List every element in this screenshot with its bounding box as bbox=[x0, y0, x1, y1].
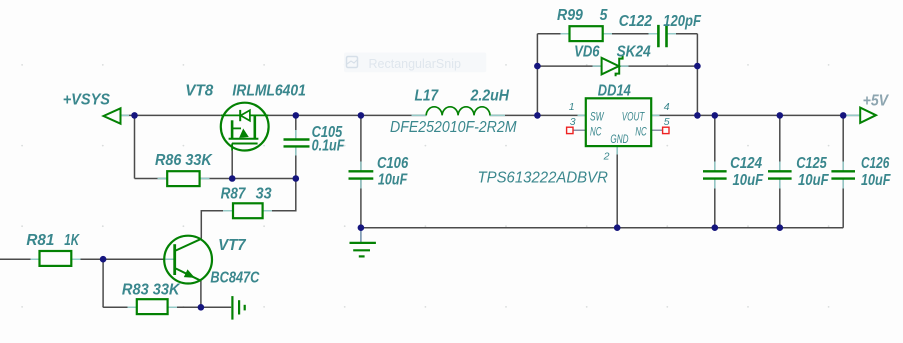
svg-text:RectangularSnip: RectangularSnip bbox=[369, 57, 461, 71]
wire GND stub below C106 bbox=[360, 228, 362, 242]
inductor L17 bbox=[426, 107, 490, 116]
svg-text:R87: R87 bbox=[221, 185, 247, 202]
wire top rail VT8 to L17 bbox=[269, 114, 427, 116]
node C124 top junction bbox=[712, 112, 719, 119]
ground symbol below C106 bbox=[350, 243, 376, 257]
wire R87 to VT7 collector bbox=[201, 211, 232, 239]
node ground rail junction C125 bbox=[777, 224, 784, 231]
svg-text:GND: GND bbox=[610, 132, 628, 146]
node ground rail junction C106 bbox=[358, 224, 365, 231]
node C105 top junction bbox=[293, 112, 300, 119]
resistor R83 bbox=[137, 299, 168, 314]
pin stubs NC bbox=[573, 129, 663, 131]
resistor R87 bbox=[233, 203, 263, 218]
svg-text:R99: R99 bbox=[557, 7, 583, 24]
capacitor C125 bbox=[768, 171, 792, 178]
tooltip overlay RectangularSnip bbox=[344, 53, 486, 73]
wire right loop vertical bbox=[696, 34, 698, 116]
earth ground at VT7 emitter bbox=[232, 296, 244, 320]
wire R83 branch vertical bbox=[102, 259, 104, 307]
svg-text:5: 5 bbox=[664, 116, 670, 128]
wire DD14 GND pin drop bbox=[616, 146, 618, 228]
node VOUT rail junction right loop bbox=[694, 112, 701, 119]
capacitor C122 bbox=[658, 25, 666, 47]
svg-text:SW: SW bbox=[590, 109, 605, 123]
node C126 top junction bbox=[840, 112, 847, 119]
svg-text:1K: 1K bbox=[64, 232, 80, 249]
capacitor C106 bbox=[349, 171, 374, 178]
capacitor C124 bbox=[703, 171, 727, 178]
node ground rail junction C124 bbox=[712, 224, 719, 231]
resistor R99 bbox=[570, 26, 603, 41]
svg-text:3: 3 bbox=[570, 116, 576, 128]
transistor VT7 NPN BC847C bbox=[164, 236, 212, 284]
component lead tints bbox=[31, 34, 861, 308]
wire top rail from +VSYS arrow to VT8 bbox=[121, 114, 221, 116]
capacitor C105 bbox=[284, 140, 310, 147]
svg-text:VOUT: VOUT bbox=[622, 109, 646, 123]
wire vertical +VSYS column bbox=[134, 115, 136, 178]
wire R81 row bbox=[0, 258, 173, 260]
node VT8 gate junction bbox=[229, 175, 236, 182]
svg-text:10uF: 10uF bbox=[861, 172, 891, 189]
transistor VT8 P-MOSFET IRLML6401 bbox=[221, 103, 269, 151]
node C106 top junction bbox=[358, 112, 365, 119]
wire C106 column bbox=[360, 115, 362, 227]
svg-text:10uF: 10uF bbox=[733, 172, 765, 189]
svg-text:L17: L17 bbox=[415, 88, 440, 105]
wire VT8 gate drop bbox=[231, 151, 233, 179]
node C105 bottom junction bbox=[293, 175, 300, 182]
svg-text:VT7: VT7 bbox=[218, 237, 247, 254]
svg-text:IRLML6401: IRLML6401 bbox=[232, 83, 306, 100]
svg-text:C122: C122 bbox=[619, 13, 652, 30]
svg-text:BC847C: BC847C bbox=[210, 269, 259, 286]
svg-text:C124: C124 bbox=[730, 155, 762, 172]
wire VOUT rail to +5V arrow bbox=[651, 114, 860, 116]
svg-text:C125: C125 bbox=[796, 155, 827, 172]
node VT7 emitter junction bbox=[198, 304, 205, 311]
svg-text:SK24: SK24 bbox=[617, 43, 651, 60]
diode VD6 bbox=[602, 56, 623, 76]
svg-text:33: 33 bbox=[256, 185, 272, 202]
svg-text:2: 2 bbox=[603, 151, 610, 163]
svg-text:DD14: DD14 bbox=[598, 82, 631, 99]
svg-text:120pF: 120pF bbox=[663, 13, 702, 30]
svg-text:R81: R81 bbox=[26, 232, 54, 249]
wire bottom rail bbox=[361, 227, 843, 229]
resistor R81 bbox=[40, 251, 72, 266]
svg-text:DFE252010F-2R2M: DFE252010F-2R2M bbox=[390, 119, 517, 136]
svg-text:0.1uF: 0.1uF bbox=[312, 137, 346, 154]
wire C125 column bbox=[779, 115, 781, 227]
svg-text:+5V: +5V bbox=[863, 92, 890, 109]
capacitor C126 bbox=[831, 171, 855, 178]
svg-text:VT8: VT8 bbox=[185, 83, 213, 100]
node SW rail junction bbox=[534, 112, 541, 119]
svg-text:10uF: 10uF bbox=[378, 171, 408, 188]
svg-text:C106: C106 bbox=[377, 155, 408, 172]
node VD6 left junction bbox=[534, 63, 541, 70]
wire C126 column bbox=[842, 115, 844, 227]
port +5V arrow bbox=[860, 108, 876, 123]
svg-text:2.2uH: 2.2uH bbox=[470, 88, 510, 105]
node R81 junction bbox=[100, 256, 107, 263]
svg-text:R86 33K: R86 33K bbox=[155, 152, 213, 169]
wire C124 column bbox=[714, 115, 716, 227]
svg-text:NC: NC bbox=[590, 125, 602, 139]
node ground rail junction DD14 bbox=[614, 224, 621, 231]
svg-text:1: 1 bbox=[569, 101, 575, 113]
wire VD6 row bbox=[537, 65, 697, 67]
node C125 top junction bbox=[777, 112, 784, 119]
svg-text:TPS613222ADBVR: TPS613222ADBVR bbox=[478, 169, 609, 186]
svg-text:+VSYS: +VSYS bbox=[63, 92, 111, 109]
svg-text:C126: C126 bbox=[861, 155, 889, 172]
port +VSYS arrow bbox=[104, 108, 121, 123]
IC DD14 TPS613222ADBVR bbox=[586, 98, 651, 146]
wire VT7 emitter drop bbox=[200, 281, 202, 308]
wire top rail L17 to DD14 pin1 bbox=[490, 114, 586, 116]
svg-text:NC: NC bbox=[635, 125, 647, 139]
svg-text:5: 5 bbox=[600, 7, 609, 24]
wire C105 column bbox=[295, 115, 297, 178]
svg-text:VD6: VD6 bbox=[574, 43, 600, 60]
wire R99 C122 row bbox=[537, 33, 697, 35]
node VD6 right junction bbox=[694, 63, 701, 70]
svg-text:4: 4 bbox=[664, 101, 670, 113]
wire R83 row to earth bbox=[103, 306, 231, 308]
wire C105 to R87 bbox=[263, 179, 296, 211]
node +VSYS junction bbox=[131, 112, 138, 119]
svg-text:R83 33K: R83 33K bbox=[122, 281, 181, 298]
svg-text:10uF: 10uF bbox=[798, 172, 830, 189]
resistor R86 bbox=[167, 171, 199, 186]
wire left loop vertical bbox=[536, 34, 538, 116]
wire R86 row bbox=[135, 178, 296, 180]
